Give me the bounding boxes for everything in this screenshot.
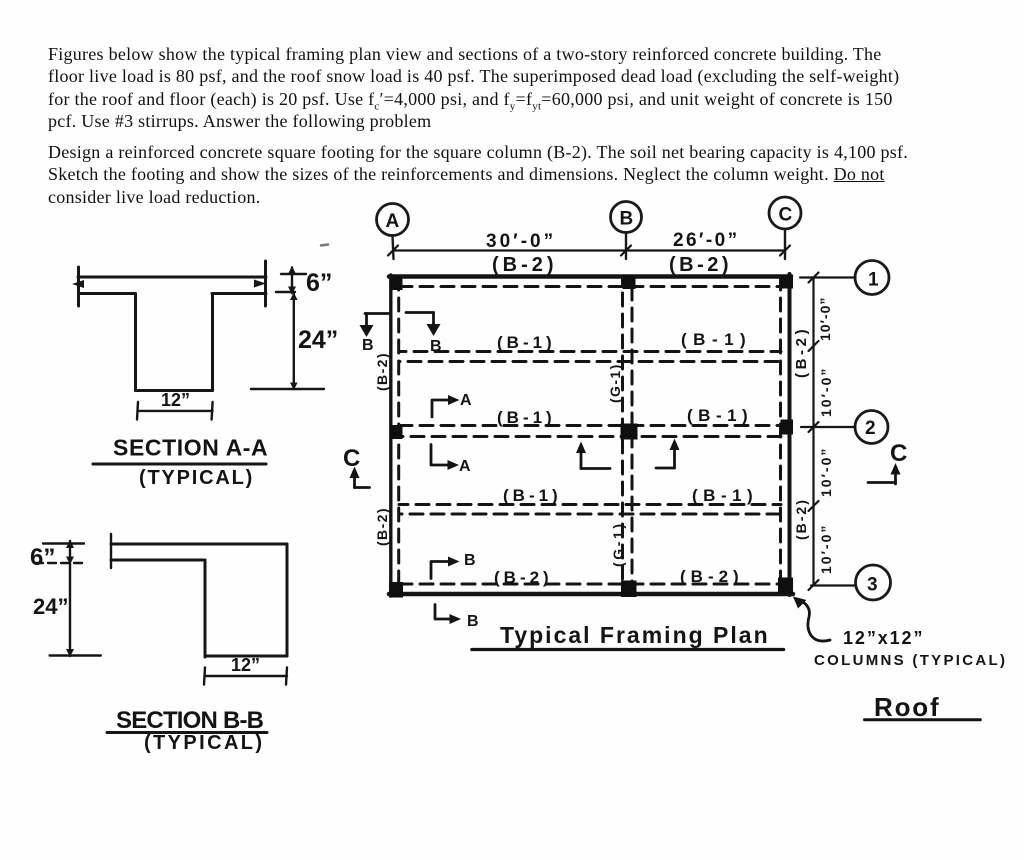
svg-text:(TYPICAL): (TYPICAL) <box>144 732 264 754</box>
svg-text:2: 2 <box>865 418 876 439</box>
svg-text:A: A <box>460 392 472 409</box>
svg-text:C: C <box>343 445 360 472</box>
svg-text:(B-2): (B-2) <box>793 326 810 378</box>
svg-text:C: C <box>890 440 907 467</box>
svg-text:(B-2): (B-2) <box>374 507 390 546</box>
svg-text:12”x12”: 12”x12” <box>843 628 924 648</box>
svg-text:6”: 6” <box>30 544 55 571</box>
svg-text:10′-0”: 10′-0” <box>818 447 834 497</box>
svg-text:Typical Framing Plan: Typical Framing Plan <box>500 622 770 648</box>
svg-text:12”: 12” <box>161 390 190 410</box>
svg-text:(B-1): (B-1) <box>503 486 562 505</box>
svg-text:(B-2): (B-2) <box>494 568 553 587</box>
svg-text:12”: 12” <box>231 655 260 675</box>
svg-text:SECTION A-A: SECTION A-A <box>113 435 268 461</box>
svg-text:30′-0”: 30′-0” <box>486 231 556 252</box>
svg-text:10′-0”: 10′-0” <box>818 367 834 417</box>
svg-text:(B-2): (B-2) <box>669 254 732 276</box>
svg-text:26′-0”: 26′-0” <box>673 230 739 251</box>
svg-text:B: B <box>467 613 479 630</box>
svg-text:24”: 24” <box>33 594 68 619</box>
svg-text:24”: 24” <box>298 326 338 354</box>
svg-text:(B-1): (B-1) <box>687 406 753 425</box>
svg-text:6”: 6” <box>306 269 332 297</box>
svg-text:(TYPICAL): (TYPICAL) <box>139 467 254 489</box>
svg-text:C: C <box>779 205 793 226</box>
svg-text:COLUMNS (TYPICAL): COLUMNS (TYPICAL) <box>814 652 1007 669</box>
svg-text:(B-1): (B-1) <box>497 333 556 352</box>
svg-text:10′-0”: 10′-0” <box>817 297 833 341</box>
svg-text:3: 3 <box>867 575 878 596</box>
svg-text:10′-0”: 10′-0” <box>818 524 834 574</box>
svg-text:B: B <box>464 552 476 569</box>
svg-text:(B-2): (B-2) <box>374 352 390 391</box>
svg-text:A: A <box>386 211 400 232</box>
svg-text:B: B <box>620 209 634 230</box>
svg-text:(B-1): (B-1) <box>692 486 758 505</box>
svg-text:(B-1): (B-1) <box>681 330 752 349</box>
svg-text:Roof: Roof <box>874 692 940 722</box>
svg-text:B: B <box>362 337 374 354</box>
svg-text:B: B <box>430 338 442 355</box>
svg-text:(G-1): (G-1) <box>607 363 623 403</box>
svg-text:1: 1 <box>868 270 879 291</box>
svg-text:A: A <box>459 458 471 475</box>
svg-text:(B-1): (B-1) <box>497 408 556 427</box>
svg-text:(B-2): (B-2) <box>793 498 809 540</box>
svg-text:SECTION B-B: SECTION B-B <box>116 707 264 734</box>
svg-text:(B-2): (B-2) <box>680 567 744 586</box>
svg-text:(G-1): (G-1) <box>610 521 626 567</box>
svg-text:(B-2): (B-2) <box>492 254 558 276</box>
